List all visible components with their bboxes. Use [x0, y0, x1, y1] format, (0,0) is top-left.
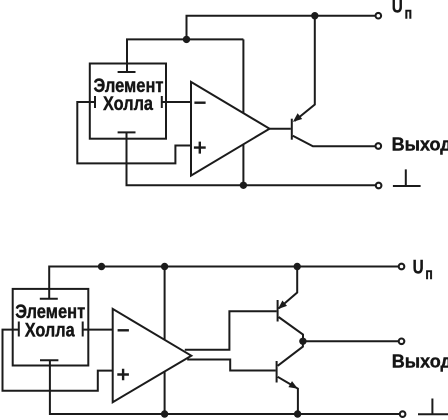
- svg-text:Выход: Выход: [392, 352, 448, 372]
- svg-text:п: п: [405, 5, 412, 22]
- svg-text:U: U: [413, 256, 424, 278]
- svg-text:п: п: [425, 266, 432, 283]
- svg-text:Холла: Холла: [103, 93, 153, 115]
- svg-text:Холла: Холла: [25, 320, 75, 342]
- svg-text:U: U: [392, 0, 403, 18]
- svg-text:Выход: Выход: [392, 134, 448, 154]
